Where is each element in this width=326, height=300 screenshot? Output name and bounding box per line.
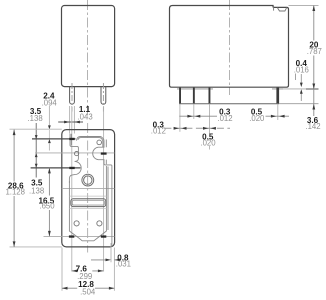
dim 7.6 line (72, 270, 104, 273)
svg-text:.094: .094 (42, 98, 58, 107)
row line 4 (62, 187, 115, 189)
pad pin3 (101, 152, 107, 154)
dim 20 extension top (289, 5, 319, 7)
front view centerline (229, 0, 231, 95)
dim row2 dashed line (164, 127, 230, 130)
svg-text:.650: .650 (39, 202, 55, 211)
bottom view centerline (87, 123, 89, 253)
svg-text:.138: .138 (29, 187, 44, 196)
seating plane line (179, 103, 279, 105)
pin1 extension (179, 104, 181, 132)
dim 0.5 row2 text (200, 132, 216, 147)
front pin 2 (193, 88, 195, 104)
svg-text:.787: .787 (307, 47, 322, 56)
side view pin right (101, 87, 106, 105)
dim 1.1 pin width: extension lines (70, 106, 75, 134)
row line 2 (35, 152, 114, 154)
dim 16.5 text (39, 196, 56, 210)
svg-text:.020: .020 (200, 138, 216, 147)
pedestal outline left (69, 134, 106, 241)
dim 3.5 mid text (29, 178, 44, 195)
shoulder plane line right (283, 88, 307, 90)
side pin centerline left (71, 83, 73, 112)
pin3 extension (209, 104, 211, 150)
pad pin1 (69, 138, 74, 140)
dim 28.6 text (4, 182, 26, 197)
row line 1 (32, 138, 76, 140)
dim 0.8 line (91, 259, 120, 262)
dim 0.5 row1 text (249, 108, 265, 123)
side view pin left (70, 87, 75, 105)
pedestal outline top right (77, 137, 112, 247)
dim 20 text (305, 40, 323, 56)
bottom view pin column extensions (72, 106, 104, 272)
pedestal cross lines around slot (69, 196, 106, 208)
svg-text:1.128: 1.128 (5, 188, 25, 197)
dim 1.1 text (78, 105, 93, 121)
dim 0.3 row2 text (151, 120, 166, 135)
dim 28.6 reference bottom (10, 246, 62, 248)
pad pin2 (69, 167, 74, 169)
svg-text:.043: .043 (78, 112, 93, 121)
hole circle bottom right (97, 221, 102, 226)
dim 0.8 text (116, 254, 131, 269)
row line 5 (44, 235, 115, 237)
dim 28.6 reference top (10, 128, 62, 130)
pin4 extension (277, 104, 279, 120)
front view top-right vent mark (274, 6, 287, 11)
hole small circle left (75, 152, 79, 156)
dim 0.4 leader and arrows (296, 74, 303, 102)
svg-text:.031: .031 (116, 260, 131, 269)
svg-text:.012: .012 (151, 127, 166, 136)
svg-text:.016: .016 (294, 66, 309, 75)
dim 12.8 text (78, 280, 96, 297)
front pin 1 (179, 88, 181, 104)
side view centerline (87, 0, 89, 117)
dim 1.1 line and arrows (58, 121, 83, 124)
pad pin4 (69, 235, 74, 237)
dim 3.6 text (305, 116, 320, 131)
hole circle bottom left (74, 221, 79, 226)
dim 3.5 top text (28, 107, 43, 123)
pad pin5 (101, 235, 106, 237)
pin2 extension (193, 104, 195, 119)
dim 2.4 text (42, 91, 58, 107)
slot (71, 199, 106, 207)
dim 3.5 top leader (35, 123, 38, 178)
front pin 4 (276, 88, 279, 104)
side view body (62, 6, 115, 87)
hole small circle top right (97, 140, 102, 145)
dim 7.6 text (76, 265, 93, 281)
front pin 3 (209, 88, 211, 104)
dim 0.3 row1 text (217, 108, 232, 123)
dim row1 line (179, 115, 289, 118)
row line 3 (31, 167, 81, 169)
dim 16.5 line (48, 168, 51, 237)
dim 0.8 extensions (62, 243, 114, 291)
bottom view outer body (62, 130, 115, 247)
dim 0.4 text (294, 59, 309, 75)
svg-text:.142: .142 (305, 122, 320, 131)
svg-text:.020: .020 (249, 114, 265, 123)
svg-text:.138: .138 (28, 114, 43, 123)
dim 20 line (312, 6, 315, 117)
shoulder ref dark line right (306, 88, 319, 90)
svg-text:.012: .012 (217, 114, 232, 123)
front view body (170, 6, 289, 88)
dim 2.4 leader (48, 106, 51, 151)
dim 28.6 line (13, 130, 16, 247)
side pin centerline right (102, 83, 104, 112)
svg-text:.504: .504 (80, 287, 96, 296)
big double circle (82, 174, 94, 186)
dim 12.8 line (62, 287, 114, 290)
front view pin shoulders (177, 88, 283, 90)
